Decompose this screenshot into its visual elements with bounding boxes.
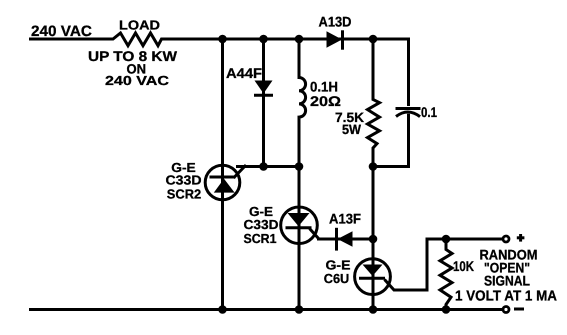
svg-text:SCR2: SCR2 (167, 187, 202, 202)
svg-text:SIGNAL: SIGNAL (484, 273, 530, 289)
svg-text:A44F: A44F (226, 65, 262, 81)
svg-text:10K: 10K (453, 258, 474, 274)
svg-text:SCR1: SCR1 (244, 231, 277, 246)
svg-text:240 VAC: 240 VAC (31, 23, 92, 40)
svg-text:1 VOLT AT 1 MA: 1 VOLT AT 1 MA (455, 289, 557, 305)
svg-text:LOAD: LOAD (119, 18, 160, 33)
svg-text:240 VAC: 240 VAC (105, 73, 170, 88)
svg-text:C33D: C33D (166, 173, 202, 188)
svg-text:C6U: C6U (324, 271, 350, 286)
svg-text:20Ω: 20Ω (310, 93, 341, 109)
svg-text:A13D: A13D (319, 14, 352, 30)
svg-text:5W: 5W (342, 122, 361, 137)
svg-text:C33D: C33D (244, 217, 279, 232)
svg-text:A13F: A13F (329, 211, 361, 227)
svg-text:0.1: 0.1 (421, 104, 437, 120)
